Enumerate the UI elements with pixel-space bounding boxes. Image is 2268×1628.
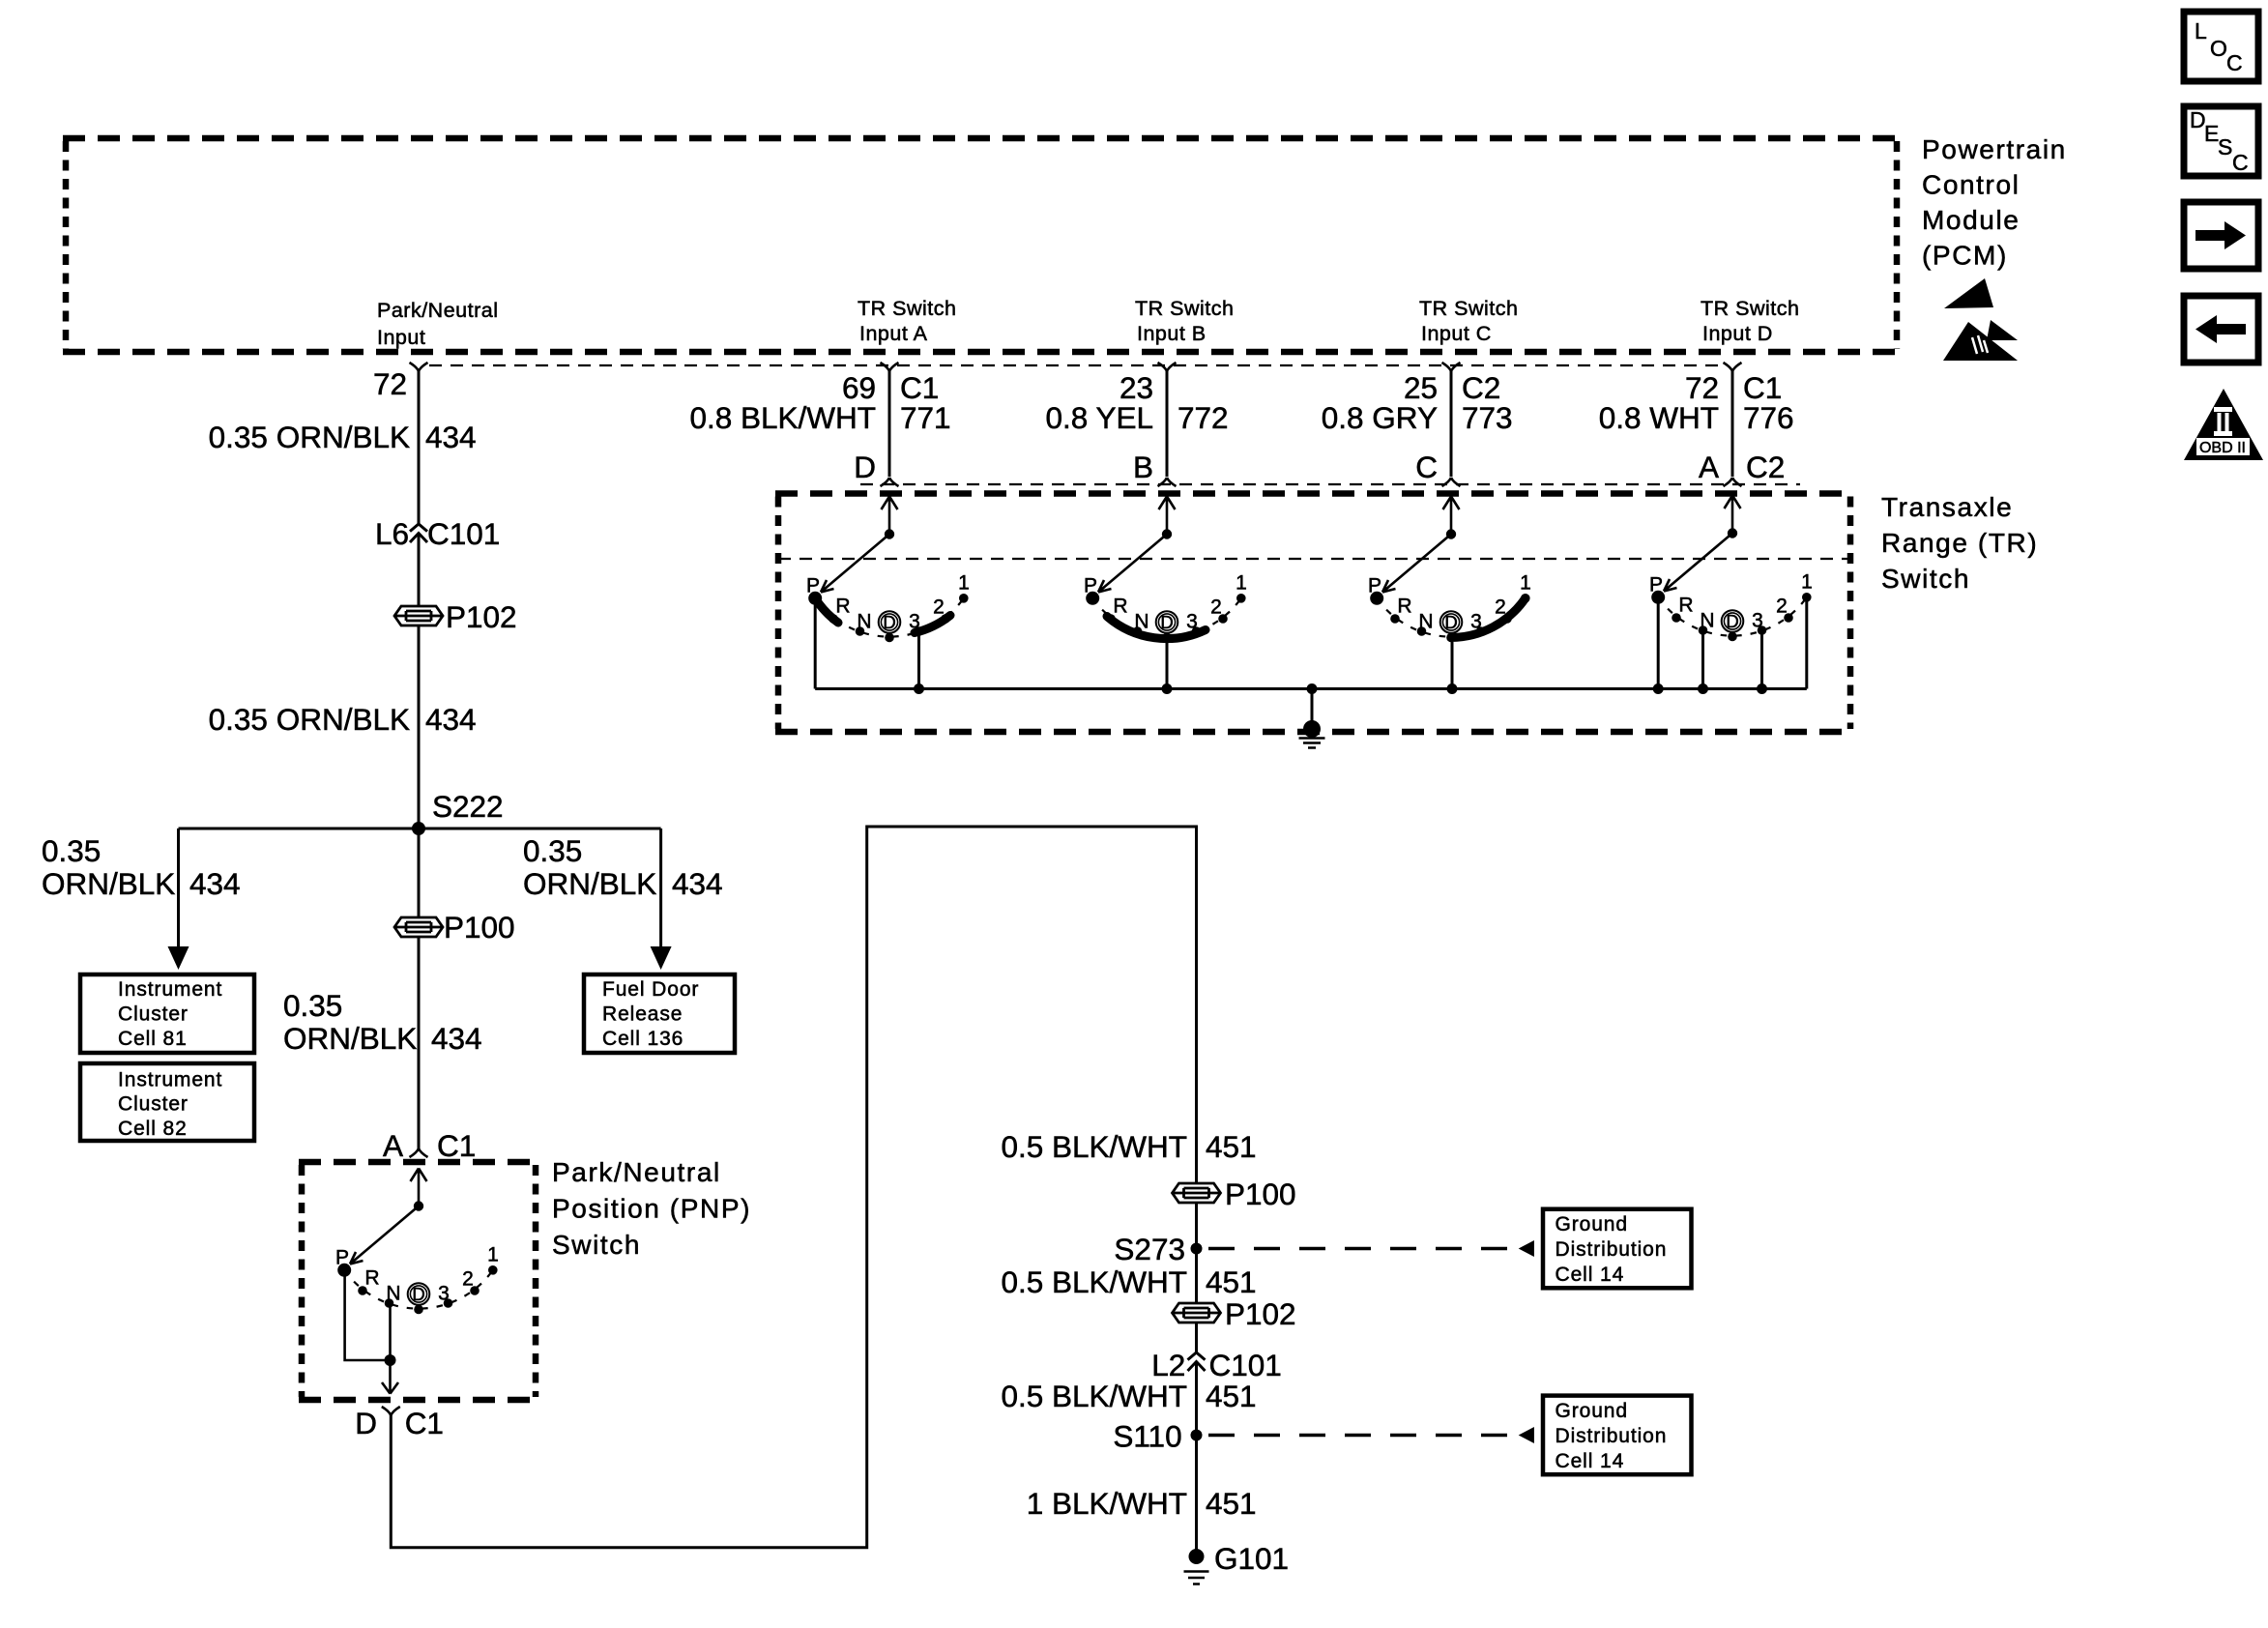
svg-text:P100: P100 [444,910,515,945]
Instrument Cluster Cell 81 box [80,974,254,1053]
pin label TR Switch Input B [1135,297,1234,345]
wire [418,534,421,607]
svg-text:S222: S222 [432,789,504,824]
wire [1195,1362,1198,1551]
pin label TR Switch Input A [858,297,956,345]
TR sw4 3 drop [1760,633,1763,689]
svg-text:Range (TR): Range (TR) [1881,528,2038,558]
svg-text:Switch: Switch [552,1230,641,1260]
terminal 72 cup at PCM [410,363,428,371]
svg-text:0.35 ORN/BLK: 0.35 ORN/BLK [209,420,410,454]
svg-text:773: 773 [1462,400,1513,435]
icon right-arrow box [2184,202,2258,269]
svg-text:C1: C1 [405,1406,444,1440]
svg-text:Ground: Ground [1556,1400,1628,1422]
svg-text:L2: L2 [1151,1348,1185,1382]
dashed reference to ground distribution [1208,1247,1515,1251]
svg-text:P102: P102 [446,599,517,634]
svg-text:Transaxle: Transaxle [1881,492,2013,522]
pin label Park/Neutral Input [377,299,499,349]
svg-text:Instrument: Instrument [118,978,222,1001]
TR switch dashed box [775,494,1853,733]
terminal D C1 below PNP [382,1407,400,1415]
svg-text:P100: P100 [1225,1177,1296,1211]
svg-text:0.5 BLK/WHT: 0.5 BLK/WHT [1001,1265,1187,1299]
svg-text:TR Switch: TR Switch [1701,297,1799,320]
TR sw1 terminal-3 drop [917,634,920,689]
svg-text:Cell 14: Cell 14 [1556,1264,1625,1286]
svg-text:0.8 YEL: 0.8 YEL [1045,400,1153,435]
PCM name label [1922,134,2067,271]
TR sw2 D drop [1166,642,1169,689]
grommet P102 [394,606,443,625]
dashed reference to ground distribution [1208,1434,1515,1438]
inline connector C101 (L2) [1188,1352,1206,1371]
svg-text:TR Switch: TR Switch [858,297,956,320]
svg-text:0.35 ORN/BLK: 0.35 ORN/BLK [209,702,410,737]
centre wire S222 to P100 [418,829,421,917]
svg-text:Input: Input [377,326,425,349]
svg-text:72: 72 [373,366,407,401]
TR sw4 P drop [1657,601,1660,689]
svg-text:434: 434 [425,702,477,737]
svg-text:434: 434 [431,1021,482,1056]
svg-text:Control: Control [1922,170,2020,200]
svg-text:D: D [355,1406,377,1440]
column D [1599,363,1794,486]
svg-text:C: C [1415,450,1438,484]
TR switch 4 internals [1649,496,1813,642]
svg-text:Switch: Switch [1881,564,1970,594]
svg-text:Cluster: Cluster [118,1093,189,1116]
svg-text:434: 434 [189,866,241,901]
TR sw1 P drop [814,604,817,689]
grommet P102 (ground circuit) [1173,1303,1221,1323]
svg-text:O: O [2210,36,2227,61]
svg-text:S: S [2218,134,2232,160]
PNP switch dashed box [299,1162,538,1400]
TR sw4 1 drop [1805,601,1808,689]
svg-text:Position (PNP): Position (PNP) [552,1194,751,1224]
TR internal ground [1303,720,1321,738]
svg-text:Input A: Input A [859,322,928,345]
icon LOC box [2184,12,2258,81]
svg-text:772: 772 [1178,400,1229,435]
svg-text:OBD II: OBD II [2199,440,2246,456]
TR name label [1881,492,2038,594]
centre wire P100 to PNP [418,937,421,1148]
PNP junction [385,1354,396,1366]
svg-text:0.8 BLK/WHT: 0.8 BLK/WHT [689,400,876,435]
wire [418,625,421,829]
svg-text:0.8 GRY: 0.8 GRY [1322,400,1438,435]
svg-text:ORN/BLK: ORN/BLK [523,866,656,901]
svg-text:Park/Neutral: Park/Neutral [552,1157,721,1187]
svg-text:0.5 BLK/WHT: 0.5 BLK/WHT [1001,1129,1187,1164]
TR sw3 D drop [1451,642,1454,689]
grommet P100 (ground circuit) [1173,1183,1221,1203]
icon OBD II triangle [2184,389,2263,460]
svg-text:B: B [1133,450,1153,484]
svg-text:Release: Release [602,1003,683,1026]
left branch wire down to instrument cluster [177,829,180,949]
svg-text:G101: G101 [1214,1541,1289,1576]
svg-text:Cell 81: Cell 81 [118,1028,188,1050]
ESD warning symbol [1943,278,2018,361]
svg-text:C: C [2232,150,2249,175]
svg-text:451: 451 [1206,1379,1257,1413]
svg-text:Cell 136: Cell 136 [602,1028,683,1050]
TR bottom bus wire [815,687,1807,690]
column C [1322,363,1513,486]
svg-text:S110: S110 [1113,1419,1181,1454]
PNP switch internals [335,1169,499,1315]
Instrument Cluster Cell 82 box [80,1063,254,1141]
wire [1195,1113,1198,1183]
splice S222 [412,822,425,835]
pin label TR Switch Input C [1419,297,1518,345]
PNP N-terminal drop wire [389,1303,392,1360]
svg-text:451: 451 [1206,1265,1257,1299]
Ground Distribution Cell 14 box (upper) [1543,1209,1692,1289]
svg-text:C101: C101 [1209,1348,1282,1382]
svg-text:Distribution: Distribution [1556,1238,1668,1261]
TR switch 1 internals [806,497,970,643]
PNP output arrow down [382,1360,398,1394]
Ground Distribution Cell 14 box (lower) [1543,1396,1692,1475]
wire 434 from PCM down [418,371,421,524]
TR ground tap [1307,683,1318,694]
internal dashed line of TR box [778,558,1850,560]
svg-text:S273: S273 [1114,1232,1185,1266]
svg-text:TR Switch: TR Switch [1135,297,1234,320]
icon left-arrow box [2184,296,2258,363]
svg-text:C2: C2 [1746,450,1785,484]
svg-text:451: 451 [1206,1129,1257,1164]
icon DESC box [2184,106,2258,176]
splice S273 [1191,1243,1203,1255]
TR switch 3 internals [1368,497,1531,643]
right branch wire down to fuel door release [659,829,662,949]
wire [1195,1203,1198,1303]
PNP name label [552,1157,751,1260]
svg-text:(PCM): (PCM) [1922,241,2008,271]
ground G101 [1189,1549,1205,1564]
svg-text:Cell 82: Cell 82 [118,1118,188,1140]
svg-text:TR Switch: TR Switch [1419,297,1518,320]
column B [1045,363,1228,486]
C2 connector thin dashed line (bottom) [860,483,1800,485]
grommet P100 on centre wire [394,917,443,937]
TR sw4 N drop [1701,633,1704,689]
svg-text:ORN/BLK: ORN/BLK [283,1021,417,1056]
svg-text:ORN/BLK: ORN/BLK [42,866,175,901]
wire [1195,1323,1198,1352]
svg-text:L6: L6 [375,516,409,551]
TR switch 2 internals [1084,497,1247,643]
svg-text:L: L [2195,18,2207,44]
svg-text:0.5 BLK/WHT: 0.5 BLK/WHT [1001,1379,1187,1413]
svg-text:451: 451 [1206,1486,1257,1521]
svg-text:P102: P102 [1225,1296,1296,1331]
svg-text:Input B: Input B [1137,322,1207,345]
svg-text:0.8 WHT: 0.8 WHT [1599,400,1719,435]
svg-text:A: A [1699,450,1719,484]
svg-text:Input D: Input D [1702,322,1773,345]
svg-text:Park/Neutral: Park/Neutral [377,299,499,322]
svg-text:0.35: 0.35 [42,833,101,868]
svg-text:771: 771 [900,400,951,435]
svg-text:Ground: Ground [1556,1213,1628,1236]
svg-text:0.35: 0.35 [523,833,582,868]
pin label TR Switch Input D [1701,297,1799,345]
svg-text:Cell 14: Cell 14 [1556,1450,1625,1472]
svg-text:776: 776 [1743,400,1794,435]
svg-text:Input C: Input C [1421,322,1492,345]
svg-text:A: A [383,1128,403,1163]
svg-text:C: C [2226,50,2243,75]
PCM module dashed box [63,138,1900,352]
svg-text:Powertrain: Powertrain [1922,134,2067,164]
TR switch terminal cups and wires (column A) [689,363,950,486]
svg-text:Fuel Door: Fuel Door [602,978,699,1001]
svg-text:Distribution: Distribution [1556,1425,1668,1447]
svg-text:Cluster: Cluster [118,1003,189,1026]
svg-text:434: 434 [425,420,477,454]
svg-text:434: 434 [672,866,723,901]
svg-text:1 BLK/WHT: 1 BLK/WHT [1027,1486,1187,1521]
svg-text:0.35: 0.35 [283,988,342,1023]
S222 branch wire horizontal [179,828,661,830]
PNP P-terminal drop wire [345,1276,391,1360]
svg-text:C1: C1 [437,1128,476,1163]
splice S110 [1191,1430,1203,1441]
svg-text:Module: Module [1922,205,2020,235]
C1 connector thin dashed line (top) [429,364,1724,366]
wire from D C1 down and across to ground circuit [391,827,1196,1548]
svg-text:Instrument: Instrument [118,1069,222,1091]
svg-text:D: D [854,450,876,484]
Fuel Door Release Cell 136 box [584,974,735,1053]
svg-text:C101: C101 [427,516,500,551]
inline connector C101 (L6) [410,524,427,542]
